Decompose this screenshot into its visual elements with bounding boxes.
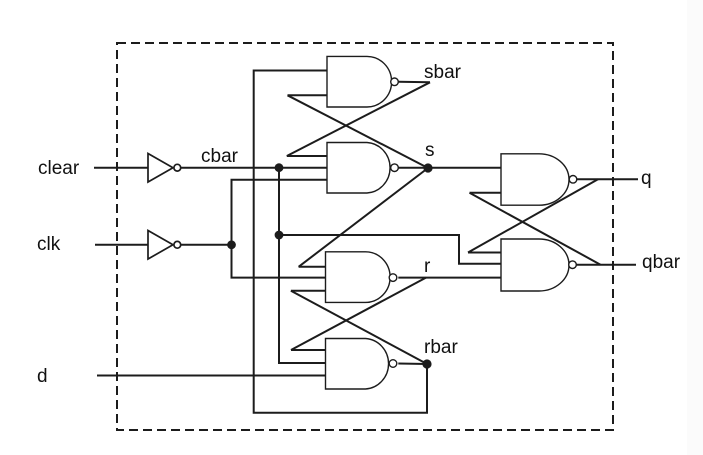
svg-text:clear: clear <box>38 158 80 179</box>
wire clk to junction <box>181 244 232 246</box>
node cbar lower junction <box>275 231 284 240</box>
svg-text:q: q <box>641 168 652 189</box>
svg-text:cbar: cbar <box>201 146 239 167</box>
nand gate G5 q <box>501 154 569 205</box>
wire gate5 bottom input stub <box>470 192 502 194</box>
wire r to gate4 diagonal <box>291 278 426 350</box>
inverter U2 clk <box>148 231 173 260</box>
wire cbar long to gate6 <box>279 235 501 264</box>
nand gate G3 r <box>326 252 391 303</box>
inverter U1 clear <box>148 154 173 183</box>
nand gate G6 qbar <box>501 239 569 291</box>
svg-text:clk: clk <box>37 234 61 255</box>
wire s to gate3 diagonal <box>299 168 428 267</box>
wire rbar to gate3 diagonal <box>291 291 427 364</box>
wire s output <box>398 167 428 169</box>
wire gate3 top input stub <box>299 266 326 268</box>
wire s to gate5 <box>428 167 501 169</box>
node cbar junction <box>275 163 284 172</box>
svg-text:rbar: rbar <box>424 337 458 358</box>
nand gate G4 rbar <box>326 339 389 390</box>
wire rbar output <box>398 363 427 366</box>
node clk junction <box>227 240 236 249</box>
wire gate3 bottom input stub <box>291 290 326 292</box>
wire clk up branch to gate2 <box>232 180 328 245</box>
wire clear input <box>94 167 148 169</box>
right edge light strip <box>687 0 703 455</box>
wire d input <box>97 375 326 377</box>
wire sbar to gate2 diagonal <box>287 82 430 156</box>
nand gate G1 sbar <box>327 56 392 107</box>
wire r output to gate6 <box>398 277 501 279</box>
wire rbar feedback loop to gate1 <box>254 71 427 413</box>
node s junction <box>423 163 432 172</box>
wire q output <box>577 178 638 180</box>
wire s to gate1 diagonal <box>288 95 429 168</box>
wire clk input <box>95 244 148 246</box>
wire qbar to gate5 diagonal <box>470 193 601 265</box>
svg-text:d: d <box>37 366 48 387</box>
node rbar junction <box>422 359 431 368</box>
wire q to gate6 diagonal <box>468 179 598 252</box>
wire gate2 top input stub <box>287 155 327 157</box>
wire qbar output <box>576 264 636 266</box>
svg-text:qbar: qbar <box>642 252 681 273</box>
wire cbar vertical to gate4 <box>279 168 326 363</box>
svg-text:s: s <box>425 140 435 161</box>
nand gate G2 s <box>327 143 390 194</box>
wire sbar output <box>398 81 430 84</box>
wire gate4 top input stub <box>291 349 326 351</box>
wire gate1 lower input stub <box>288 94 328 96</box>
dashed boundary box <box>117 43 613 430</box>
svg-text:r: r <box>424 256 431 277</box>
wire gate6 top input stub <box>468 252 501 254</box>
svg-text:sbar: sbar <box>424 62 462 83</box>
wire clk down branch to gate3 <box>232 245 326 278</box>
wire cbar <box>181 167 327 169</box>
